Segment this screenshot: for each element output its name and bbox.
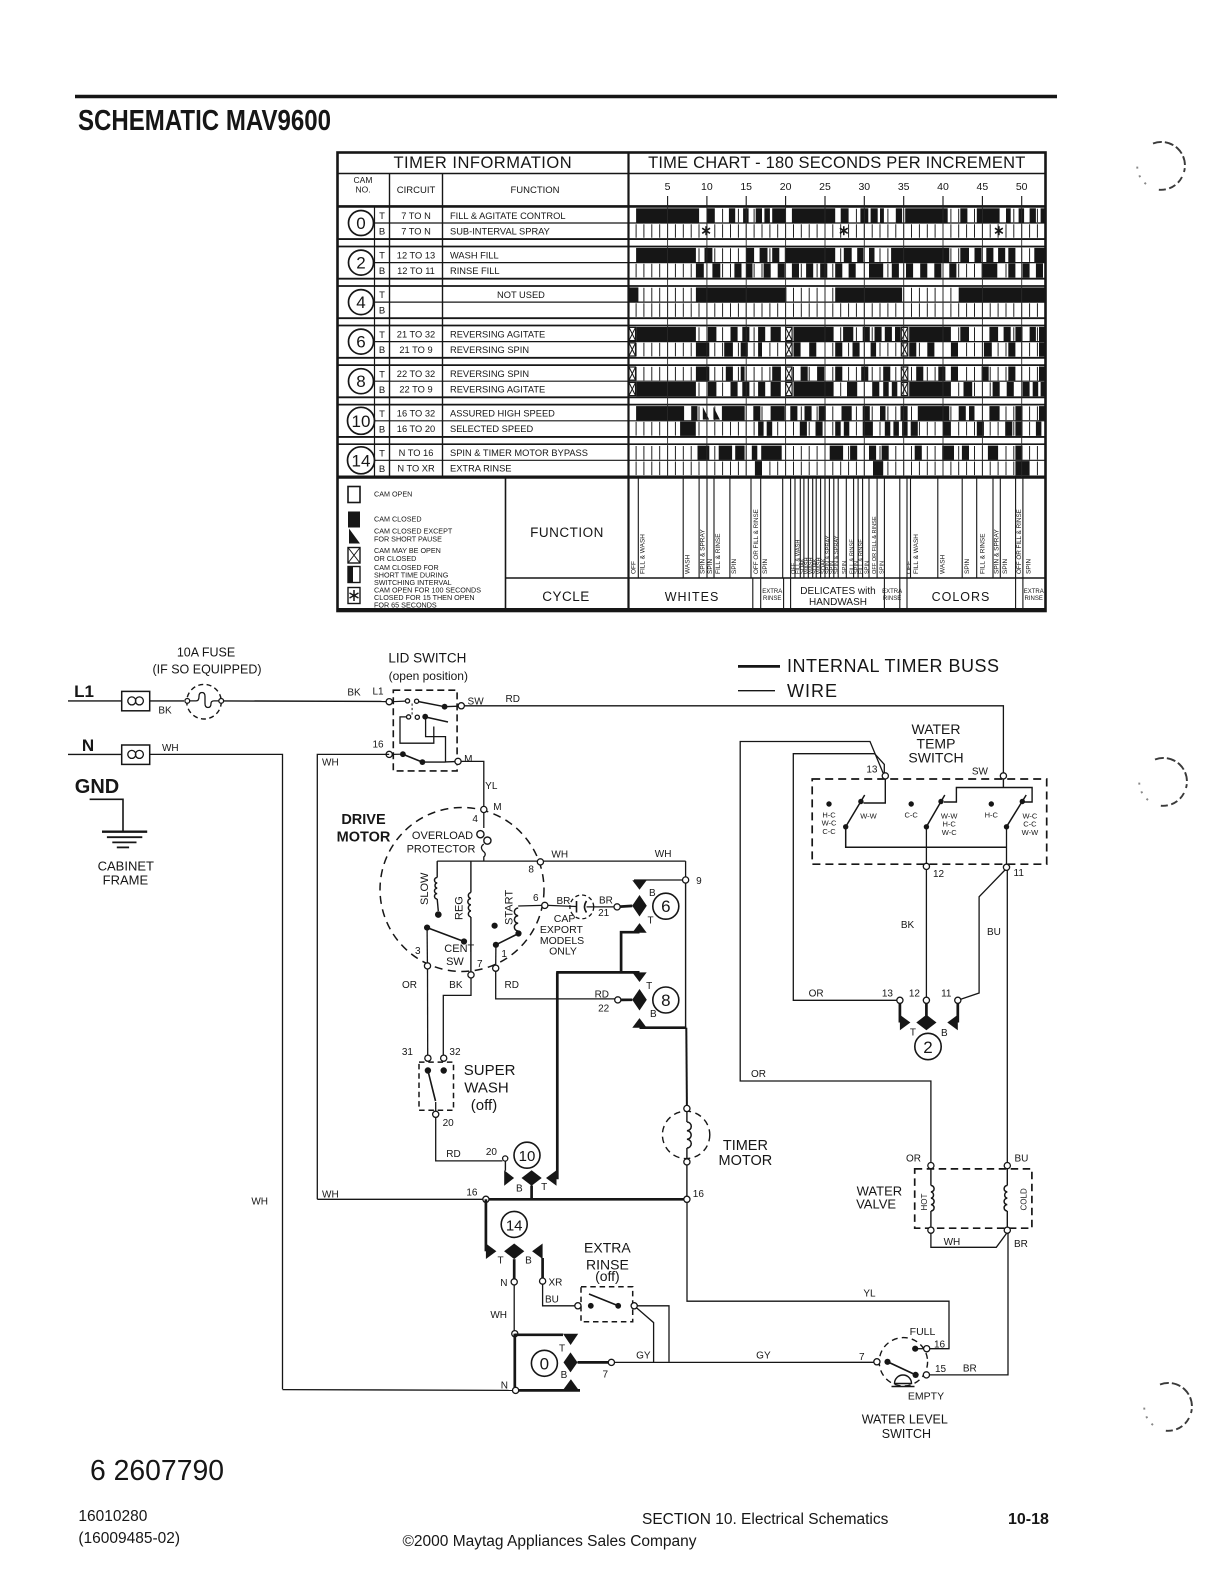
svg-text:6 2607790: 6 2607790: [90, 1455, 224, 1487]
svg-text:N: N: [500, 1278, 507, 1289]
svg-text:13: 13: [882, 988, 894, 999]
wire BK to fuse: [150, 700, 184, 702]
svg-text:CIRCUIT: CIRCUIT: [397, 185, 436, 196]
timer cam row 14: [338, 444, 1046, 476]
svg-text:B: B: [941, 1028, 948, 1039]
svg-text:SW: SW: [972, 766, 989, 777]
winding REG: [470, 861, 472, 892]
svg-text:N: N: [501, 1381, 508, 1392]
svg-text:25: 25: [819, 181, 831, 193]
motor terminal 8: [537, 859, 543, 865]
wire BR water level 15 to water valve: [930, 1233, 1009, 1375]
svg-text:SPIN: SPIN: [879, 561, 885, 574]
svg-text:7: 7: [602, 1370, 608, 1381]
svg-text:RINSE: RINSE: [1025, 596, 1043, 602]
svg-text:10: 10: [519, 1148, 536, 1165]
svg-text:W-C: W-C: [942, 828, 957, 837]
svg-text:HANDWASH: HANDWASH: [809, 597, 867, 608]
terminal 20: [435, 1102, 437, 1111]
svg-text:B: B: [379, 464, 385, 475]
motor terminal M pin 4: [481, 806, 487, 812]
svg-text:CAM OPEN: CAM OPEN: [374, 490, 412, 499]
svg-text:WH: WH: [490, 1310, 507, 1321]
svg-text:BR: BR: [963, 1363, 977, 1374]
svg-text:FILL & WASH: FILL & WASH: [640, 534, 647, 574]
terminal 11 of temp switch: [1003, 864, 1009, 870]
svg-text:B: B: [379, 385, 385, 396]
svg-text:FULL: FULL: [910, 1326, 936, 1338]
svg-text:FILL & RINSE: FILL & RINSE: [715, 533, 722, 574]
svg-text:SPIN & SPRAY: SPIN & SPRAY: [700, 529, 707, 574]
svg-text:L1: L1: [74, 682, 94, 701]
svg-text:EMPTY: EMPTY: [908, 1391, 944, 1403]
wire WH neutral run (left riser): [150, 754, 283, 1389]
valve HOT solenoid: [930, 1169, 932, 1186]
svg-text:DRIVE: DRIVE: [341, 812, 386, 828]
svg-text:MOTOR: MOTOR: [719, 1153, 773, 1169]
svg-text:TIME CHART - 180 SECONDS PER I: TIME CHART - 180 SECONDS PER INCREMENT: [648, 154, 1025, 172]
svg-text:SPIN: SPIN: [842, 561, 848, 574]
svg-text:RD: RD: [505, 694, 519, 705]
svg-text:C-C: C-C: [822, 827, 836, 836]
svg-text:YL: YL: [863, 1289, 876, 1300]
svg-text:EXTRA: EXTRA: [762, 589, 782, 595]
wire GY net: [615, 1361, 877, 1363]
buss cam6 T to 32 net: [621, 932, 639, 972]
wire OR temp13 to water valve: [740, 742, 931, 1163]
svg-text:7 TO N: 7 TO N: [401, 211, 431, 221]
svg-text:2: 2: [356, 254, 365, 273]
svg-text:8: 8: [661, 991, 670, 1010]
svg-text:FILL & AGITATE CONTROL: FILL & AGITATE CONTROL: [450, 211, 566, 221]
wire BK motor 7 to super wash 32: [443, 978, 471, 1055]
svg-text:GY: GY: [756, 1351, 771, 1362]
svg-text:BK: BK: [901, 920, 915, 931]
wire BK fuse to lid switch: [224, 700, 387, 703]
svg-text:WASH FILL: WASH FILL: [450, 250, 499, 260]
svg-text:RINSE: RINSE: [883, 596, 901, 602]
svg-text:21 TO 9: 21 TO 9: [399, 345, 432, 355]
svg-text:5: 5: [665, 181, 671, 193]
svg-text:10: 10: [701, 181, 713, 193]
timer cam row 2: [338, 247, 1046, 279]
svg-text:35: 35: [898, 181, 910, 193]
svg-text:SUPER: SUPER: [464, 1062, 516, 1079]
svg-text:ASSURED HIGH SPEED: ASSURED HIGH SPEED: [450, 409, 555, 419]
legend: wire: [738, 690, 775, 692]
timer cam row 8: [338, 365, 1046, 397]
svg-text:WASH: WASH: [464, 1080, 508, 1097]
timer cam row 4: [338, 286, 1046, 318]
svg-text:CYCLE: CYCLE: [542, 589, 590, 604]
svg-text:TIMER: TIMER: [723, 1138, 768, 1154]
svg-text:WH: WH: [322, 757, 339, 768]
svg-text:FOR SHORT PAUSE: FOR SHORT PAUSE: [374, 535, 442, 544]
wire YL lid M to motor M: [461, 761, 484, 806]
svg-text:T: T: [910, 1028, 916, 1039]
svg-text:45: 45: [977, 181, 989, 193]
wire WH valve common: [931, 1233, 1007, 1247]
svg-text:40: 40: [937, 181, 949, 193]
svg-text:16: 16: [466, 1187, 478, 1198]
svg-text:0: 0: [540, 1354, 549, 1373]
scan punch hole: [1139, 758, 1187, 806]
svg-text:4: 4: [356, 293, 365, 312]
terminal 21: [614, 904, 620, 910]
wire BK temp12 to cam2 12: [925, 870, 927, 998]
svg-text:SPIN & TIMER MOTOR BYPASS: SPIN & TIMER MOTOR BYPASS: [450, 448, 588, 458]
svg-text:16 TO 20: 16 TO 20: [397, 424, 435, 434]
svg-text:VALVE: VALVE: [856, 1197, 896, 1212]
svg-text:WATER LEVEL: WATER LEVEL: [862, 1412, 948, 1426]
svg-text:8: 8: [356, 372, 365, 391]
svg-text:14: 14: [506, 1217, 523, 1234]
buss 32 net horizontal: [556, 971, 639, 974]
svg-text:T: T: [379, 251, 385, 262]
svg-text:13: 13: [866, 765, 878, 776]
svg-text:RD: RD: [446, 1149, 460, 1160]
svg-text:OR: OR: [809, 988, 824, 999]
svg-text:T: T: [497, 1256, 503, 1267]
svg-text:CABINET: CABINET: [98, 858, 154, 873]
valve COLD solenoid: [1006, 1169, 1008, 1186]
svg-text:SWITCH: SWITCH: [882, 1427, 931, 1441]
node N junction bottom: [513, 1387, 519, 1393]
svg-text:N TO 16: N TO 16: [399, 448, 434, 458]
cam switch 14: [501, 1211, 527, 1237]
svg-text:16: 16: [693, 1189, 705, 1200]
svg-text:T: T: [541, 1182, 547, 1193]
cam switch 0: [531, 1350, 557, 1376]
legend: internal timer buss: [738, 665, 780, 668]
svg-text:YL: YL: [485, 781, 498, 792]
svg-text:NO.: NO.: [355, 185, 370, 195]
svg-text:SPIN: SPIN: [1002, 559, 1009, 574]
svg-text:SLOW: SLOW: [419, 872, 431, 905]
function column dividers and labels: [638, 478, 1023, 578]
svg-text:REVERSING SPIN: REVERSING SPIN: [450, 345, 529, 355]
svg-text:31: 31: [402, 1047, 414, 1058]
svg-text:M: M: [493, 802, 501, 813]
terminal XR: [541, 1258, 544, 1278]
svg-text:SPIN: SPIN: [707, 559, 714, 574]
svg-text:10A FUSE: 10A FUSE: [177, 646, 235, 660]
svg-text:B: B: [379, 266, 385, 277]
svg-text:DELICATES with: DELICATES with: [800, 586, 875, 597]
svg-text:SPIN: SPIN: [731, 559, 738, 574]
svg-text:WH: WH: [162, 743, 179, 754]
svg-text:ONLY: ONLY: [549, 946, 577, 958]
svg-text:12 TO 11: 12 TO 11: [397, 266, 435, 276]
svg-text:PROTECTOR: PROTECTOR: [407, 843, 476, 855]
wire YL 16-bus to water level FULL: [687, 1202, 949, 1348]
svg-text:BU: BU: [545, 1294, 559, 1305]
svg-text:INTERNAL TIMER BUSS: INTERNAL TIMER BUSS: [787, 656, 1000, 676]
svg-text:T: T: [648, 916, 654, 927]
buss cam10 to 16 bus: [530, 1186, 533, 1200]
svg-text:MOTOR: MOTOR: [337, 829, 391, 845]
node 16 left: [483, 1196, 489, 1202]
svg-text:FRAME: FRAME: [103, 873, 149, 888]
svg-text:B: B: [649, 888, 656, 899]
svg-text:22 TO 32: 22 TO 32: [397, 369, 435, 379]
temp switch internals: [944, 779, 1032, 802]
svg-text:REVERSING SPIN: REVERSING SPIN: [450, 369, 529, 379]
svg-text:B: B: [379, 306, 385, 317]
svg-text:(off): (off): [471, 1097, 497, 1114]
svg-text:SPIN: SPIN: [964, 559, 971, 574]
svg-text:CAM: CAM: [354, 175, 373, 185]
svg-text:GND: GND: [75, 776, 119, 798]
svg-text:OFF OR FILL & RINSE: OFF OR FILL & RINSE: [753, 509, 760, 574]
svg-text:15: 15: [935, 1364, 947, 1375]
svg-text:OVERLOAD: OVERLOAD: [412, 830, 473, 842]
legend band frame: [338, 477, 1046, 479]
buss cam8 B to 9 net: [640, 1026, 687, 1029]
node 9: [683, 877, 689, 883]
svg-text:7 TO N: 7 TO N: [401, 226, 431, 236]
svg-text:B: B: [650, 1009, 657, 1020]
svg-text:T: T: [379, 330, 385, 341]
svg-text:BU: BU: [1015, 1154, 1029, 1165]
svg-text:12: 12: [909, 988, 921, 999]
svg-text:11: 11: [941, 988, 952, 999]
terminal N of cam14: [513, 1259, 516, 1279]
svg-text:22 TO 9: 22 TO 9: [399, 385, 432, 395]
timer cam row 0: [338, 207, 1046, 239]
svg-text:(open position): (open position): [389, 669, 468, 683]
svg-text:EXTRA: EXTRA: [1024, 589, 1044, 595]
svg-text:B: B: [516, 1184, 523, 1195]
svg-text:16010280: 16010280: [78, 1508, 147, 1525]
svg-text:EXTRA: EXTRA: [882, 589, 902, 595]
svg-text:22: 22: [598, 1003, 610, 1014]
svg-text:16: 16: [372, 740, 384, 751]
svg-text:BU: BU: [987, 927, 1001, 938]
svg-text:6: 6: [533, 893, 539, 904]
svg-text:SCHEMATIC MAV9600: SCHEMATIC MAV9600: [78, 105, 331, 137]
svg-text:B: B: [525, 1256, 532, 1267]
cam switch 8: [653, 987, 679, 1013]
svg-text:W-W: W-W: [1022, 828, 1039, 837]
super wash switch (off): [419, 1062, 454, 1110]
svg-text:16 TO 32: 16 TO 32: [397, 409, 435, 419]
svg-text:FILL & WASH: FILL & WASH: [913, 534, 920, 574]
svg-text:8: 8: [528, 864, 534, 875]
svg-text:11: 11: [1014, 868, 1025, 879]
svg-text:H-C: H-C: [985, 811, 999, 820]
centrifugal switch: [424, 925, 430, 931]
svg-text:T: T: [379, 448, 385, 459]
terminal 13 of temp switch: [882, 773, 888, 779]
svg-text:14: 14: [352, 451, 371, 470]
winding SLOW: [436, 861, 438, 877]
wire WH lid switch 16 riser: [317, 754, 389, 1199]
svg-text:©2000 Maytag Appliances Sales: ©2000 Maytag Appliances Sales Company: [403, 1533, 697, 1550]
ground symbol cabinet frame: [102, 831, 147, 833]
buss 16 horizontal: [317, 1198, 486, 1200]
wire WH to node 9: [685, 861, 687, 877]
svg-text:SPIN: SPIN: [1025, 559, 1032, 574]
timer cam row 6: [338, 326, 1046, 358]
svg-text:COLORS: COLORS: [932, 590, 991, 604]
svg-text:SW: SW: [446, 956, 464, 968]
svg-text:20: 20: [780, 181, 792, 193]
terminal 13 of cam2: [897, 997, 903, 1003]
svg-text:OFF: OFF: [906, 561, 913, 574]
svg-text:FUNCTION: FUNCTION: [530, 525, 604, 540]
svg-text:EXTRA: EXTRA: [584, 1240, 631, 1256]
svg-text:OFF OR FILL & RINSE: OFF OR FILL & RINSE: [1016, 509, 1023, 574]
svg-text:T: T: [379, 409, 385, 420]
wire RD super wash 20 to cam 10: [436, 1117, 503, 1161]
svg-text:WH: WH: [655, 849, 672, 860]
chart 5-increment gridlines: [668, 206, 1022, 478]
svg-text:32: 32: [449, 1047, 461, 1058]
wire BU XR to extra rinse switch: [543, 1284, 575, 1306]
valve terminal BU: [1004, 1163, 1010, 1169]
svg-text:W-W: W-W: [860, 812, 877, 821]
svg-text:OR: OR: [402, 980, 417, 991]
svg-text:EXTRA RINSE: EXTRA RINSE: [450, 464, 511, 474]
wire N bottom run to cam0: [283, 1389, 513, 1392]
svg-text:21 TO 32: 21 TO 32: [397, 329, 435, 339]
svg-text:T: T: [646, 981, 652, 992]
wire L1 lead: [68, 700, 122, 702]
timer cam row 10: [338, 405, 1046, 437]
scan punch hole: [1144, 1383, 1192, 1431]
svg-text:WH: WH: [551, 850, 568, 861]
svg-text:N: N: [82, 736, 94, 755]
svg-text:7: 7: [477, 959, 483, 970]
svg-text:BR: BR: [1014, 1239, 1028, 1250]
svg-text:OFF OR FILL & RINSE: OFF OR FILL & RINSE: [872, 516, 878, 574]
svg-text:REVERSING AGITATE: REVERSING AGITATE: [450, 385, 545, 395]
svg-text:RD: RD: [505, 980, 519, 991]
svg-text:RINSE: RINSE: [763, 596, 781, 602]
terminal 31: [425, 1055, 431, 1061]
svg-text:BR: BR: [599, 895, 613, 906]
svg-text:HOT: HOT: [920, 1194, 929, 1211]
svg-text:SWITCH: SWITCH: [908, 750, 963, 766]
svg-text:L1: L1: [372, 687, 384, 698]
svg-text:FUNCTION: FUNCTION: [510, 185, 559, 196]
svg-text:SPIN & SPRAY: SPIN & SPRAY: [834, 535, 840, 574]
svg-text:15: 15: [740, 181, 752, 193]
svg-text:XR: XR: [549, 1278, 563, 1289]
cam switch 6: [653, 893, 679, 919]
svg-text:12: 12: [933, 869, 945, 880]
svg-text:N TO XR: N TO XR: [397, 464, 435, 474]
wire OR motor 3 to super wash 31: [427, 969, 429, 1055]
svg-text:3: 3: [415, 946, 421, 957]
svg-text:(IF SO EQUIPPED): (IF SO EQUIPPED): [152, 663, 261, 677]
legend symbols: [348, 487, 360, 503]
buss 16 to cam14 T: [485, 1199, 488, 1251]
timer information table frame: [338, 153, 1046, 612]
svg-text:SUB-INTERVAL SPRAY: SUB-INTERVAL SPRAY: [450, 226, 550, 236]
svg-text:9: 9: [696, 876, 702, 887]
cam switch 2: [915, 1033, 941, 1059]
svg-text:T: T: [379, 211, 385, 222]
svg-text:30: 30: [858, 181, 870, 193]
svg-text:B: B: [379, 227, 385, 238]
svg-text:T: T: [559, 1344, 565, 1355]
svg-text:WASH: WASH: [685, 554, 692, 574]
svg-text:4: 4: [472, 814, 478, 825]
svg-text:OR: OR: [906, 1154, 921, 1165]
svg-text:B: B: [379, 424, 385, 435]
terminal SW of temp switch: [1000, 773, 1006, 779]
svg-text:RINSE FILL: RINSE FILL: [450, 266, 500, 276]
svg-text:B: B: [379, 345, 385, 356]
svg-text:1: 1: [501, 949, 507, 960]
svg-text:SPIN & SPRAY: SPIN & SPRAY: [994, 529, 1001, 574]
svg-text:WH: WH: [944, 1237, 961, 1248]
svg-text:REG: REG: [453, 896, 465, 920]
wire WH motor top bus: [437, 860, 685, 862]
svg-text:20: 20: [486, 1147, 498, 1158]
svg-text:(16009485-02): (16009485-02): [78, 1530, 180, 1547]
cam switch 10: [514, 1142, 540, 1168]
svg-text:6: 6: [661, 897, 670, 916]
svg-text:FOR 65 SECONDS: FOR 65 SECONDS: [374, 601, 437, 610]
svg-text:SECTION 10. Electrical Schema: SECTION 10. Electrical Schematics: [642, 1511, 889, 1528]
wire BU temp11 to cam2 11 and water valve: [960, 870, 1005, 1000]
svg-text:20: 20: [443, 1118, 455, 1129]
terminal 7 of cam0: [578, 1361, 609, 1364]
svg-text:WHITES: WHITES: [665, 590, 720, 604]
wire RD lid switch SW to water temp switch SW: [464, 706, 1003, 773]
svg-text:OFF: OFF: [631, 561, 638, 574]
terminal 22 and wire RD from motor 1: [615, 997, 621, 1003]
terminal 12 of temp switch: [923, 863, 929, 869]
svg-text:6: 6: [356, 333, 365, 352]
svg-text:12 TO 13: 12 TO 13: [397, 250, 435, 260]
svg-text:LID SWITCH: LID SWITCH: [388, 651, 466, 666]
buss 32 net riser to cam10 T: [556, 972, 559, 1179]
svg-text:WIRE: WIRE: [787, 681, 838, 701]
svg-text:NOT USED: NOT USED: [497, 290, 545, 300]
scan punch hole: [1137, 142, 1185, 190]
wire WH cam14 N down to cam0: [513, 1285, 515, 1331]
svg-text:BK: BK: [347, 688, 361, 699]
svg-text:REVERSING AGITATE: REVERSING AGITATE: [450, 329, 545, 339]
svg-text:CAM CLOSED: CAM CLOSED: [374, 515, 422, 524]
svg-text:FILL & RINSE: FILL & RINSE: [979, 533, 986, 574]
svg-text:WASH: WASH: [940, 554, 947, 574]
terminal 12 of cam2: [923, 997, 929, 1003]
svg-text:50: 50: [1016, 181, 1028, 193]
motor terminal 1: [493, 965, 499, 971]
svg-text:T: T: [379, 290, 385, 301]
page top rule: [75, 95, 1057, 98]
svg-text:0: 0: [356, 214, 365, 233]
buss cam0 frame: [513, 1334, 516, 1390]
svg-text:BK: BK: [449, 980, 463, 991]
svg-text:BK: BK: [158, 706, 172, 717]
connector N: [122, 745, 150, 764]
svg-text:OR: OR: [751, 1069, 766, 1080]
svg-text:M: M: [464, 754, 472, 765]
wire extra rinse to GY branch: [636, 1308, 653, 1363]
svg-text:SPIN: SPIN: [762, 559, 769, 574]
svg-text:CENT: CENT: [444, 943, 474, 955]
node 16 right at timer motor: [684, 1196, 690, 1202]
svg-text:OR CLOSED: OR CLOSED: [374, 554, 416, 563]
svg-text:C-C: C-C: [905, 811, 919, 820]
svg-text:SPIN: SPIN: [865, 561, 871, 574]
